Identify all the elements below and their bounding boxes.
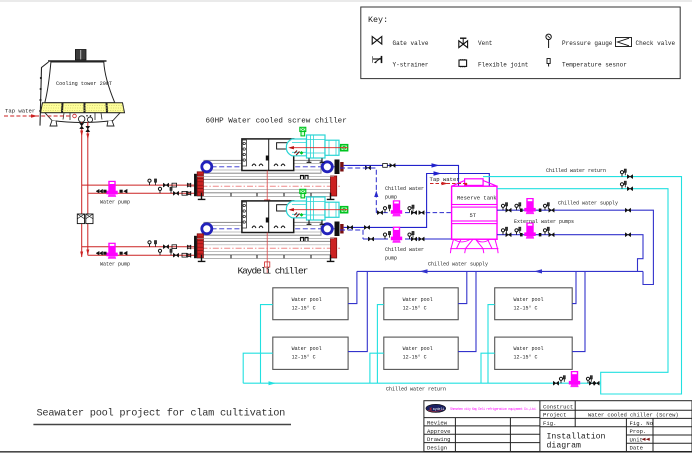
flexible joint on riser 1 bbox=[77, 214, 84, 224]
svg-text:Tap water: Tap water bbox=[5, 108, 35, 115]
svg-text:Water pool: Water pool bbox=[403, 297, 433, 303]
svg-text:Pressure gauge: Pressure gauge bbox=[562, 40, 613, 47]
tower leg right bbox=[107, 121, 114, 127]
tower basin supports bbox=[63, 113, 102, 120]
pool feed drop r2c3 bbox=[572, 271, 585, 351]
return pipe 1 (outer) bbox=[483, 177, 682, 394]
tank body bbox=[452, 186, 497, 239]
svg-text:Kaydeli chiller: Kaydeli chiller bbox=[238, 266, 308, 277]
svg-text:Y-strainer: Y-strainer bbox=[393, 62, 429, 69]
svg-text:Vent: Vent bbox=[478, 40, 492, 47]
pool return r1c3 bbox=[488, 305, 495, 384]
water pool r2c3 bbox=[495, 337, 573, 369]
svg-text:Date: Date bbox=[630, 445, 643, 452]
sheet bottom border bbox=[0, 451, 692, 453]
pool return r1c1 bbox=[261, 305, 273, 384]
supply pipe 2 from tank bbox=[497, 235, 643, 272]
svg-text:diagram: diagram bbox=[547, 440, 581, 450]
svg-text:Prop.: Prop. bbox=[630, 428, 647, 435]
svg-text:pump: pump bbox=[385, 195, 397, 201]
gauges on chiller1 condenser lines bbox=[148, 179, 151, 185]
gate valve on chiller1 supply bbox=[365, 166, 370, 170]
svg-text:12-15° C: 12-15° C bbox=[514, 355, 538, 361]
water pool r1c1 bbox=[273, 288, 348, 320]
tower body bbox=[45, 62, 115, 103]
condenser supply pipe chiller1 upper bbox=[82, 184, 197, 186]
pool return r2c1 bbox=[243, 353, 273, 383]
svg-text:Approve: Approve bbox=[427, 428, 451, 435]
svg-text:Water pool: Water pool bbox=[403, 346, 433, 352]
title underline bbox=[33, 424, 291, 426]
svg-text:Chilled water supply: Chilled water supply bbox=[428, 262, 488, 268]
tank shoulders bbox=[452, 181, 497, 187]
return pump E bbox=[569, 371, 580, 387]
gate valve2 on chiller1 supply bbox=[390, 163, 395, 167]
return pipe 2 (inner) bbox=[497, 189, 668, 384]
tower access ladder bbox=[40, 62, 49, 126]
pump B discharge to tank bottom bbox=[405, 238, 452, 240]
svg-text:Chilled water supply: Chilled water supply bbox=[558, 201, 618, 207]
vent on return pipe 2 bbox=[620, 183, 623, 189]
pool feed drop r2c1 bbox=[348, 271, 367, 351]
svg-text:Installation: Installation bbox=[547, 432, 606, 442]
cooling water pump 1 bbox=[106, 181, 117, 197]
pool feed drop r1c3 bbox=[572, 271, 576, 303]
chiller2 supply pipe to tank top bbox=[344, 174, 490, 228]
chiller unit 2 bbox=[187, 189, 348, 273]
svg-text:pump: pump bbox=[385, 256, 397, 262]
flexible joint on chiller1 supply bbox=[383, 164, 388, 168]
svg-text:Water pump: Water pump bbox=[100, 262, 130, 268]
check valve legend symbol bbox=[616, 38, 632, 47]
pool return r1c2 bbox=[377, 305, 383, 384]
chilled water pump A bbox=[391, 200, 402, 216]
RESERVE TANK bbox=[450, 179, 498, 253]
TITLE BLOCK bbox=[424, 401, 692, 452]
svg-text:Seawater pool project for clam: Seawater pool project for clam cultivati… bbox=[37, 408, 286, 420]
return flow arrow up bbox=[374, 191, 378, 198]
y-strainer legend symbol bbox=[373, 56, 382, 63]
pool feed drop r1c1 bbox=[348, 271, 357, 303]
tap water pipe to tank (red dashed) bbox=[430, 183, 466, 185]
svg-text:Key:: Key: bbox=[368, 15, 388, 25]
gauges on chiller2 condenser lines bbox=[148, 241, 151, 247]
svg-text:12-15° C: 12-15° C bbox=[292, 305, 316, 311]
pump D fittings bbox=[501, 229, 504, 235]
right columns bbox=[574, 401, 576, 427]
supply pipe 1 from tank to pools bbox=[497, 210, 653, 284]
vent legend symbol bbox=[459, 38, 468, 47]
supply flow arrow bbox=[432, 163, 440, 167]
gate valve legend symbol bbox=[372, 37, 382, 45]
water pool r1c2 bbox=[384, 288, 458, 320]
bottom return main bbox=[243, 382, 601, 384]
svg-text:Project: Project bbox=[543, 412, 567, 419]
condenser pipe chiller1 lower (pump line) bbox=[88, 192, 197, 194]
WATER POOLS bbox=[273, 288, 572, 370]
vent on return pipe 1 bbox=[620, 171, 623, 177]
tap water supply pipe (red dashed) bbox=[4, 114, 76, 118]
key box border bbox=[361, 7, 680, 79]
water pool r2c2 bbox=[384, 337, 458, 369]
chilled water pump B suction pipe bbox=[363, 238, 388, 240]
svg-text:Drawing: Drawing bbox=[427, 436, 451, 443]
cooling water pump 2 bbox=[106, 243, 117, 259]
left/right divider bbox=[539, 401, 541, 452]
tower basin bbox=[45, 113, 120, 123]
svg-text:Fig.: Fig. bbox=[543, 420, 556, 427]
tank seam 2 bbox=[452, 221, 497, 224]
svg-text:Check valve: Check valve bbox=[636, 40, 676, 47]
svg-text:12-15° C: 12-15° C bbox=[292, 355, 316, 361]
svg-text:Gate valve: Gate valve bbox=[393, 40, 429, 47]
company logo bbox=[426, 404, 446, 412]
svg-text:Fig. No: Fig. No bbox=[630, 420, 654, 427]
svg-text:Chilled water return: Chilled water return bbox=[546, 168, 606, 174]
COOLING TOWER bbox=[39, 50, 124, 127]
svg-text:Water pool: Water pool bbox=[514, 346, 544, 352]
chiller1 supply pipe to tank bbox=[344, 165, 459, 186]
water pool r2c1 bbox=[273, 337, 348, 369]
pool labels bbox=[292, 297, 544, 361]
unit marker bbox=[642, 438, 650, 441]
gate valve on riser 1 bbox=[80, 123, 84, 128]
condenser pipe chiller2 lower (pump line) bbox=[88, 254, 197, 256]
tank lid bbox=[465, 179, 484, 186]
gate valve on riser 2 bbox=[86, 126, 90, 131]
svg-text:Design: Design bbox=[427, 445, 447, 452]
svg-text:Reserve tank: Reserve tank bbox=[457, 194, 497, 201]
riser 2 arrow bbox=[86, 250, 89, 256]
svg-text:5T: 5T bbox=[470, 212, 477, 219]
cooling water riser pipe 1 bbox=[81, 122, 83, 257]
title block outline bbox=[424, 401, 692, 452]
valves on chiller2 condenser lines bbox=[163, 245, 168, 249]
chilled water pump B bbox=[391, 227, 402, 243]
riser arrows below tower bbox=[80, 131, 83, 137]
sheet top edge line bbox=[0, 0, 692, 2]
svg-text:Chilled water: Chilled water bbox=[385, 186, 424, 192]
pump A discharge pipe to tank (dashed) bbox=[405, 212, 470, 214]
svg-text:Temperature sesnor: Temperature sesnor bbox=[562, 62, 627, 69]
chilled water pump A suction pipe bbox=[376, 212, 388, 214]
svg-text:External water pumps: External water pumps bbox=[514, 219, 574, 225]
pool return r2c2 bbox=[370, 353, 384, 383]
header flow arrow 1 bbox=[420, 269, 428, 273]
external water pump D bbox=[524, 223, 535, 239]
cooling water riser pipe 2 bbox=[87, 122, 89, 255]
svg-text:Unit: Unit bbox=[630, 436, 643, 443]
pool feed drop r2c2 bbox=[458, 271, 476, 351]
pump2 suction fittings bbox=[96, 251, 127, 255]
valves on chiller2 supply bbox=[347, 225, 352, 229]
POOL SUPPLY HEADER (blue) bbox=[357, 270, 643, 272]
left block columns bbox=[454, 418, 456, 452]
svg-text:Water pool: Water pool bbox=[292, 346, 322, 352]
pool feed drop r1c2 bbox=[458, 271, 467, 303]
svg-text:12-15° C: 12-15° C bbox=[403, 355, 427, 361]
tower inlet circle bbox=[87, 117, 92, 122]
tower fan motor cap bbox=[75, 50, 86, 61]
tower outlet circle bbox=[79, 116, 85, 122]
pump1 suction fittings bbox=[96, 189, 127, 193]
pump B fittings bbox=[383, 233, 386, 239]
valves on chiller1 condenser lines bbox=[163, 183, 168, 187]
svg-text:Review: Review bbox=[427, 420, 448, 427]
return flow arrow bbox=[269, 381, 277, 385]
condenser supply pipe chiller2 upper bbox=[82, 246, 197, 248]
tower top rim bbox=[48, 60, 107, 62]
svg-text:Tap water: Tap water bbox=[430, 176, 460, 183]
chiller2 supply arrows bbox=[434, 171, 442, 175]
svg-text:Water pump: Water pump bbox=[100, 200, 130, 206]
drain arrow at riser bottom bbox=[80, 252, 83, 258]
pressure gauge legend symbol bbox=[546, 34, 551, 48]
temperature sensor legend symbol bbox=[547, 59, 550, 67]
header flow arrow 2 bbox=[534, 269, 542, 273]
left block rows bbox=[424, 417, 540, 419]
svg-text:12-15° C: 12-15° C bbox=[514, 305, 538, 311]
tank stand bbox=[450, 239, 498, 253]
chiller unit 1 bbox=[187, 127, 348, 211]
chiller1 return pipe (dashed) down to pump A bbox=[340, 168, 376, 213]
tank seam 1 bbox=[452, 205, 497, 208]
tank internal dip tube bbox=[469, 213, 471, 232]
chiller2 return dashed drop bbox=[340, 230, 363, 239]
svg-text:60HP Water cooled screw chille: 60HP Water cooled screw chiller bbox=[206, 118, 347, 126]
svg-text:Water pool: Water pool bbox=[514, 297, 544, 303]
COOLING WATER RED CIRCUIT bbox=[82, 122, 197, 257]
svg-text:aydeli: aydeli bbox=[433, 407, 445, 411]
external water pump C bbox=[524, 198, 535, 214]
water pool r1c3 bbox=[495, 288, 573, 320]
svg-text:Shenzhen city Kay Deli refrige: Shenzhen city Kay Deli refrigeration equ… bbox=[450, 407, 537, 412]
title block labels bbox=[427, 403, 653, 451]
flexible joint legend symbol bbox=[459, 59, 467, 67]
tower louver band (yellow) bbox=[41, 103, 125, 113]
svg-text:Water cooled chiller (Screw): Water cooled chiller (Screw) bbox=[588, 412, 679, 418]
right rows bbox=[540, 409, 692, 411]
pump E fittings bbox=[559, 377, 562, 383]
tower leg left bbox=[50, 121, 57, 127]
svg-text:Water pool: Water pool bbox=[292, 297, 322, 303]
pump C fittings bbox=[501, 204, 504, 210]
flexible joint on riser 2 bbox=[86, 214, 93, 224]
svg-text:Chilled water: Chilled water bbox=[385, 247, 424, 253]
svg-text:Cooling tower 200T: Cooling tower 200T bbox=[56, 81, 112, 87]
svg-text:Flexible joint: Flexible joint bbox=[478, 62, 528, 69]
pool return r2c3 bbox=[481, 353, 495, 383]
svg-text:Construct: Construct bbox=[543, 403, 573, 410]
svg-text:Chilled water return: Chilled water return bbox=[386, 386, 446, 392]
svg-text:12-15° C: 12-15° C bbox=[403, 305, 427, 311]
pump A fittings bbox=[383, 207, 386, 213]
